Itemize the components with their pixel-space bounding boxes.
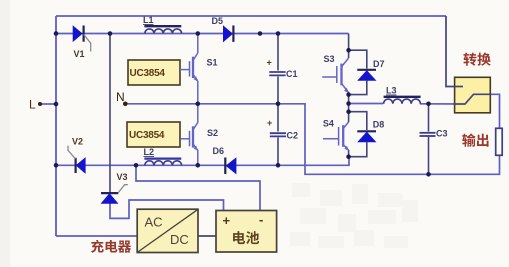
transistor S2 (IGBT) [190,123,198,151]
inductor L1 [144,26,181,33]
wire gate stub S3 [322,76,337,78]
wire bottom charger feed [56,235,137,237]
wire C1 C2 column [277,34,279,71]
wire left rail [55,16,57,236]
diode D8 (pointing up) with branch wire [349,112,376,157]
op-amp U2 UC3854 control box (lower) [127,122,180,147]
wire L3 feed [349,103,384,105]
capacitor C2 [270,133,286,136]
wire top rail [56,15,446,17]
op-amp U1 UC3854 control box (upper) [128,60,180,85]
capacitor C3 [420,133,436,136]
thyristor V3 (pointing up) [101,185,128,204]
diode D5 [224,26,234,42]
svg-text:L1: L1 [143,15,154,25]
node N terminal [116,90,128,106]
junction dots right leg [346,48,351,159]
diode V2 (SCR pointing left) [68,146,85,173]
capacitor C1 [269,72,285,75]
label 充电器 [91,240,131,253]
transistor S4 (IGBT) [339,122,349,151]
svg-text:D8: D8 [373,120,385,130]
inductor L2 [144,159,181,166]
svg-text:AC: AC [145,215,163,230]
wire charger to battery link [198,235,216,237]
diode V1 (SCR) [73,26,91,52]
transfer switch box [455,77,491,113]
svg-text:S3: S3 [324,54,335,64]
resistor R load [496,128,503,155]
svg-text:V2: V2 [72,137,83,147]
svg-text:DC: DC [170,232,189,247]
node L terminal [29,98,42,112]
svg-text:D7: D7 [373,59,385,69]
svg-text:L2: L2 [144,147,155,157]
wire V2 row [56,157,349,166]
junction dots N row [54,102,281,107]
inductor L3 [384,97,421,104]
wire V1 row [56,33,349,35]
wire C3 column [428,104,430,132]
svg-text:+: + [267,58,272,68]
wire switch output to load [474,94,500,128]
svg-text:D5: D5 [212,16,224,26]
wire V3 column [109,34,111,194]
transistor S3 (IGBT) [337,58,349,93]
wire gate stub S4 [323,138,339,140]
wire L terminal stub [40,103,56,105]
wire left leg column [197,34,199,54]
label 输出 [462,134,488,147]
svg-text:C1: C1 [286,69,298,79]
junction dots V2 row [54,163,281,168]
wire gate lead S1 [180,69,190,71]
svg-text:-: - [259,212,263,227]
svg-text:C2: C2 [287,131,299,141]
wire right bypass drop into transfer switch [446,16,463,87]
wire N bus and output return [125,104,499,175]
junction dots output filter [426,102,431,177]
svg-text:D6: D6 [213,146,225,156]
svg-text:UC3854: UC3854 [129,130,165,141]
svg-text:V3: V3 [117,172,128,182]
label 电池 [233,231,259,244]
svg-text:+: + [223,213,231,228]
junction dots V1 row [54,31,281,36]
svg-text:S2: S2 [207,128,218,138]
label 转换 [463,53,490,66]
svg-text:N: N [116,90,125,104]
svg-text:UC3854: UC3854 [130,68,166,79]
svg-text:C3: C3 [436,129,448,139]
wire right leg column [348,34,350,59]
diode D7 (pointing up) with branch wire [349,50,376,94]
wire V3 anode to battery plus [110,200,224,218]
svg-text:V1: V1 [74,49,85,59]
svg-text:L: L [29,98,36,112]
charger AC/DC box [137,209,198,252]
svg-text:+: + [267,118,272,128]
battery box [216,211,277,253]
svg-text:S1: S1 [207,58,218,68]
wire gate lead S2 [181,138,190,140]
svg-text:L3: L3 [386,86,397,96]
svg-text:S4: S4 [323,119,334,129]
wire L3 to switch [420,103,465,105]
wire battery minus to L2 node [136,165,260,210]
transistor S1 (IGBT) [190,53,198,82]
diode D6 (pointing left) [225,158,236,175]
